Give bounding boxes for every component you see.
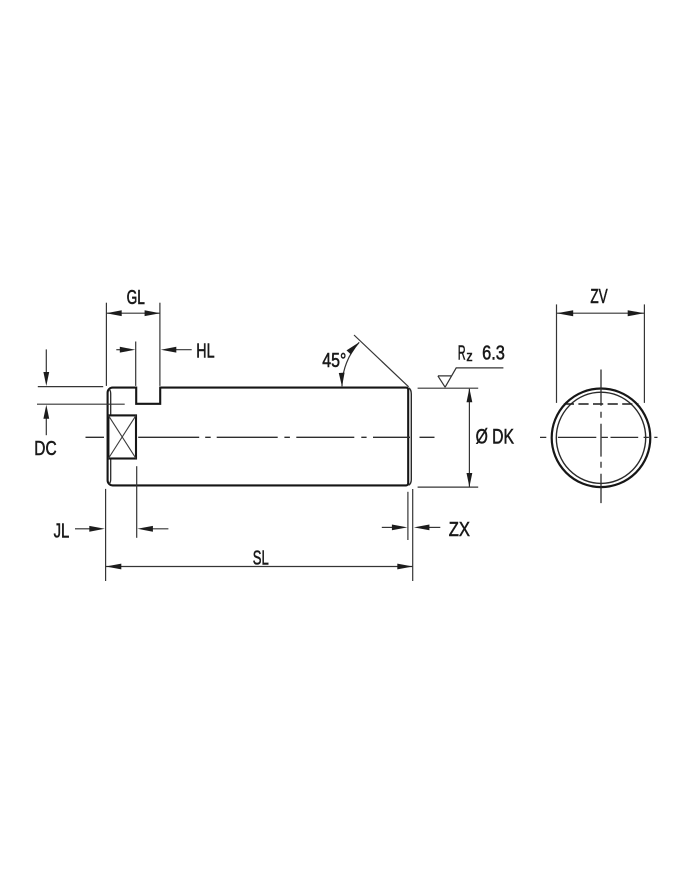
dimension DK: extension line top <box>418 387 479 389</box>
dimension JL: extension line right <box>136 466 138 538</box>
dimension HL: left leader with arrow <box>116 349 124 351</box>
dimension DK: dimension line <box>468 389 470 487</box>
dimension ZV: arrow left <box>557 310 574 316</box>
surface finish symbol Rz <box>438 368 504 387</box>
end view: outer circle <box>552 389 651 488</box>
dimension GL: arrow right <box>145 310 161 316</box>
chamfer 45 deg: arc arrow top <box>347 342 360 354</box>
dimension ZV: arrow right <box>628 310 645 316</box>
svg-text:JL: JL <box>54 521 70 543</box>
snap ring box diagonal 2 <box>108 415 136 458</box>
svg-text:45°: 45° <box>322 350 346 372</box>
dimension ZX: left leader with arrow <box>382 526 393 528</box>
svg-text:ZX: ZX <box>449 519 470 541</box>
left end chamfer line <box>109 389 111 484</box>
dimension DC: extension line bottom <box>37 403 125 405</box>
svg-text:Ø DK: Ø DK <box>476 424 515 448</box>
svg-text:ZV: ZV <box>590 286 608 308</box>
end view: chamfer circle <box>556 392 645 483</box>
dimension DC: extension line top <box>38 386 103 388</box>
chamfer 45 deg: diagonal leader <box>354 335 409 387</box>
right end face line <box>409 388 412 485</box>
dimension GL: extension line right <box>159 303 161 386</box>
svg-text:SL: SL <box>253 547 269 569</box>
dimension ZV: extension line left <box>556 304 558 403</box>
snap ring box diagonal 1 <box>108 415 136 458</box>
end view: hidden groove chord (dashed) <box>564 403 639 405</box>
dimension GL: dimension line <box>106 312 159 314</box>
dimension SL: dimension line <box>106 566 413 568</box>
dimension SL: arrow right <box>397 564 413 570</box>
snap ring box <box>108 415 136 458</box>
svg-text:6.3: 6.3 <box>482 342 505 364</box>
dimension DK: extension line bottom <box>418 486 479 488</box>
dimension JL: extension line left <box>105 489 107 581</box>
dimension DC: lower leader with up arrow <box>45 416 47 435</box>
svg-text:HL: HL <box>196 341 214 363</box>
dimension DK: arrow up <box>467 388 473 402</box>
dimension ZX: extension line left <box>407 492 409 540</box>
end view: horizontal centerline <box>540 436 658 438</box>
dimension ZX: extension line right <box>412 489 414 581</box>
dimension GL: arrow left <box>106 310 122 316</box>
chamfer 45 deg: arc arrow bottom <box>339 373 345 387</box>
dimension JL: left leader with arrow <box>75 528 91 530</box>
centerline side view <box>86 436 435 438</box>
svg-text:GL: GL <box>127 287 145 309</box>
dimension DC: upper leader with down arrow <box>45 349 47 375</box>
svg-text:R: R <box>458 342 466 364</box>
part outline: pin body side view <box>108 388 409 486</box>
dimension HL: right leader with arrow <box>172 349 192 351</box>
dimension ZV: extension line right <box>643 304 645 403</box>
dimension JL: right leader with arrow <box>151 528 168 530</box>
end view: vertical centerline <box>600 370 602 504</box>
dimension GL: extension line left <box>105 303 107 386</box>
dimension ZX: right leader with arrow <box>428 526 440 528</box>
dimension SL: arrow left <box>106 564 122 570</box>
svg-text:z: z <box>466 348 472 365</box>
dimension ZV: dimension line <box>557 312 645 314</box>
chamfer 45 deg: angular arc <box>342 342 359 386</box>
dimension DK: arrow down <box>467 473 473 487</box>
dimension HL: extension line middle <box>135 342 137 386</box>
svg-text:DC: DC <box>34 438 56 460</box>
